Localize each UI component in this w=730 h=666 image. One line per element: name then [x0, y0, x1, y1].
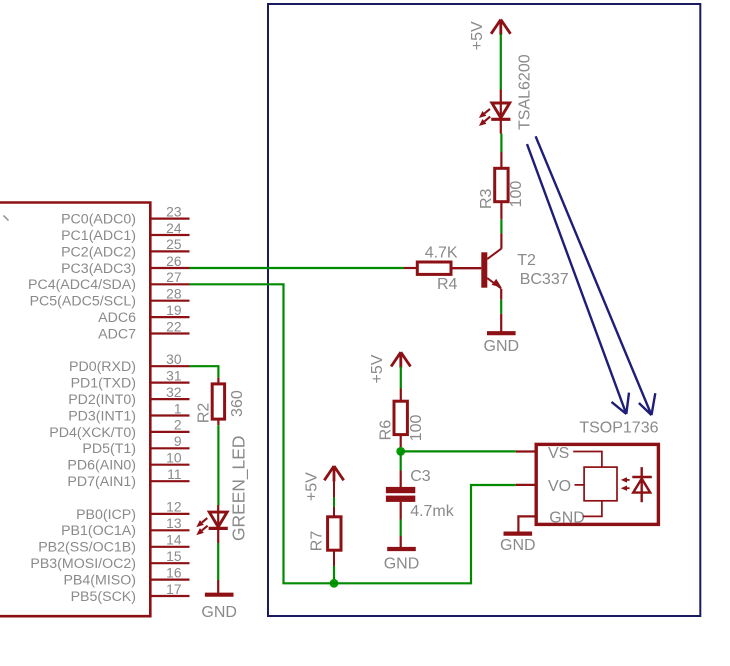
IR beam arrow 1	[527, 144, 629, 414]
pin VO	[516, 484, 536, 486]
svg-text:360: 360	[229, 390, 246, 417]
pin 19 ADC6	[151, 316, 190, 318]
svg-text:16: 16	[166, 565, 182, 580]
svg-text:GREEN_LED: GREEN_LED	[228, 436, 248, 541]
svg-text:R2: R2	[195, 403, 212, 424]
TSOP internal wiring	[573, 452, 602, 517]
pin 15 PB3(MOSI/OC2)	[151, 562, 190, 564]
wire C3 to GND	[400, 502, 402, 520]
pin 9 PD5(T1)	[151, 447, 190, 449]
wire R7 to junction	[333, 550, 335, 566]
wire +5V to LED	[500, 34, 502, 90]
svg-text:GND: GND	[549, 509, 585, 526]
svg-text:PC2(ADC2): PC2(ADC2)	[61, 244, 136, 260]
pin GND	[518, 516, 536, 531]
resistor R4	[417, 262, 451, 274]
svg-text:28: 28	[166, 287, 182, 302]
pin 25 PC2(ADC2)	[151, 250, 190, 252]
resistor R7	[328, 517, 341, 550]
svg-text:4.7mk: 4.7mk	[410, 503, 455, 520]
svg-text:+5V: +5V	[469, 21, 486, 50]
svg-text:TSAL6200: TSAL6200	[517, 54, 534, 130]
svg-text:PC0(ADC0): PC0(ADC0)	[61, 212, 136, 228]
capacitor C3	[386, 487, 415, 493]
svg-text:PD0(RXD): PD0(RXD)	[69, 359, 136, 375]
svg-text:R7: R7	[309, 531, 326, 552]
svg-text:PB1(OC1A): PB1(OC1A)	[61, 523, 136, 539]
svg-text:10: 10	[166, 451, 182, 466]
wire R4 to T2 base	[451, 267, 481, 269]
svg-text:ADC7: ADC7	[98, 326, 136, 342]
ground (transmitter)	[487, 331, 516, 335]
svg-text:R4: R4	[437, 276, 458, 293]
wire LED to R3	[500, 134, 502, 153]
pin 24 PC1(ADC1)	[151, 234, 190, 236]
wire +5V to R7	[333, 481, 335, 498]
svg-text:PD6(AIN0): PD6(AIN0)	[67, 458, 136, 474]
svg-text:4.7K: 4.7K	[425, 245, 458, 262]
wire PC3 pin26 to R4	[190, 267, 405, 269]
svg-text:22: 22	[166, 319, 181, 334]
T2 collector diagonal	[487, 249, 501, 260]
pin 22 ADC7	[151, 332, 190, 334]
svg-text:25: 25	[166, 237, 182, 252]
svg-text:30: 30	[166, 352, 182, 367]
pin 26 PC3(ADC3)	[151, 267, 190, 269]
IR beam arrow 2	[536, 136, 656, 415]
pin 16 PB4(MISO)	[151, 578, 190, 580]
svg-text:17: 17	[166, 582, 181, 597]
resistor R6	[394, 401, 407, 434]
wire PC4 pin27 to TSOP VO (long net)	[190, 284, 516, 583]
stray text fragment tick	[4, 216, 9, 221]
svg-text:100: 100	[508, 181, 525, 208]
svg-text:PD5(T1): PD5(T1)	[82, 441, 136, 457]
wire LED to GND	[217, 543, 219, 580]
IC U1 body (ATmega, partial)	[0, 203, 150, 617]
resistor R2	[212, 384, 224, 419]
svg-text:GND: GND	[201, 604, 237, 621]
wire R3 to T2 collector	[500, 202, 502, 220]
svg-text:1: 1	[174, 401, 182, 416]
svg-text:32: 32	[166, 385, 181, 400]
svg-text:9: 9	[174, 434, 182, 449]
svg-text:+5V: +5V	[369, 354, 386, 383]
svg-text:15: 15	[166, 549, 182, 564]
svg-text:PD4(XCK/T0): PD4(XCK/T0)	[49, 425, 136, 441]
LED D1 TSAL6200	[492, 103, 510, 118]
svg-text:23: 23	[166, 204, 182, 219]
svg-text:GND: GND	[384, 556, 420, 573]
pin 28 PC5(ADC5/SCL)	[151, 300, 190, 302]
pin 31 PD1(TXD)	[151, 382, 190, 384]
svg-text:PC3(ADC3): PC3(ADC3)	[61, 261, 136, 277]
svg-text:14: 14	[166, 533, 182, 548]
svg-text:24: 24	[166, 221, 182, 236]
wire R2 to LED	[217, 419, 219, 425]
wire +5V to R6	[400, 367, 402, 389]
svg-text:PB5(SCK): PB5(SCK)	[71, 589, 136, 605]
svg-text:R3: R3	[478, 188, 495, 209]
svg-text:TSOP1736: TSOP1736	[579, 420, 658, 437]
pin 30 PD0(RXD)	[151, 365, 190, 367]
svg-text:PB0(ICP): PB0(ICP)	[76, 507, 136, 523]
pin 12 PB0(ICP)	[151, 513, 190, 515]
svg-text:PC1(ADC1): PC1(ADC1)	[61, 228, 136, 244]
svg-text:2: 2	[174, 418, 182, 433]
pin 13 PB1(OC1A)	[151, 529, 190, 531]
pin 2 PD4(XCK/T0)	[151, 431, 190, 433]
pin 10 PD6(AIN0)	[151, 464, 190, 466]
svg-text:BC337: BC337	[520, 271, 569, 288]
ground (C3)	[387, 547, 416, 551]
svg-text:PB2(SS/OC1B): PB2(SS/OC1B)	[38, 540, 136, 556]
ground (TSOP)	[504, 531, 533, 535]
svg-text:11: 11	[167, 467, 181, 482]
svg-text:PD3(INT1): PD3(INT1)	[68, 408, 136, 424]
transistor T2 BC337 base bar	[481, 252, 487, 287]
svg-text:VS: VS	[548, 445, 569, 462]
+5V supply (transmitter)	[491, 20, 510, 36]
ground (green LED)	[205, 593, 234, 597]
LED GREEN_LED	[209, 512, 227, 527]
+5V supply (R7)	[324, 466, 343, 482]
TSOP photodiode light arrows	[624, 479, 630, 481]
svg-text:31: 31	[166, 368, 181, 383]
pin 11 PD7(AIN1)	[151, 480, 190, 482]
svg-text:T2: T2	[517, 252, 536, 269]
T2 emitter diagonal with arrow	[487, 278, 501, 288]
svg-text:VO: VO	[548, 478, 571, 495]
svg-text:PD1(TXD): PD1(TXD)	[71, 376, 136, 392]
wire emitter to GND	[500, 289, 502, 300]
pin 27 PC4(ADC4/SDA)	[151, 283, 190, 285]
IC U2 TSOP1736 body	[536, 444, 658, 524]
svg-text:13: 13	[166, 516, 182, 531]
svg-text:GND: GND	[500, 537, 536, 554]
svg-text:PD2(INT0): PD2(INT0)	[68, 392, 136, 408]
junction dot R7/VO net	[330, 579, 339, 588]
svg-text:PC5(ADC5/SCL): PC5(ADC5/SCL)	[30, 294, 136, 310]
pin 23 PC0(ADC0)	[151, 218, 190, 220]
svg-text:PB3(MOSI/OC2): PB3(MOSI/OC2)	[30, 556, 136, 572]
resistor R3	[495, 168, 508, 201]
+5V supply (R6)	[391, 352, 410, 368]
svg-text:100: 100	[408, 414, 425, 441]
TSOP internal block	[584, 467, 617, 501]
svg-text:ADC6: ADC6	[98, 310, 136, 326]
svg-text:R6: R6	[377, 420, 394, 441]
pin 32 PD2(INT0)	[151, 398, 190, 400]
pin 17 PB5(SCK)	[151, 595, 190, 597]
pin 14 PB2(SS/OC1B)	[151, 546, 190, 548]
svg-text:C3: C3	[410, 468, 431, 485]
frame border	[268, 4, 700, 616]
svg-text:26: 26	[166, 254, 182, 269]
svg-text:12: 12	[166, 500, 181, 515]
svg-text:27: 27	[166, 270, 181, 285]
wire junction to C3	[400, 451, 402, 470]
pin VS	[516, 450, 536, 452]
wire PD0 pin30 to R2	[190, 366, 219, 378]
TSOP photodiode	[641, 467, 643, 502]
svg-text:PD7(AIN1): PD7(AIN1)	[67, 474, 136, 490]
svg-text:+5V: +5V	[304, 472, 321, 501]
junction dot VS net	[396, 447, 405, 456]
pin 1 PD3(INT1)	[151, 414, 190, 416]
wire R6 to junction	[400, 435, 402, 448]
svg-text:GND: GND	[484, 338, 520, 355]
wire junction to TSOP VS	[401, 450, 516, 452]
svg-text:PB4(MISO): PB4(MISO)	[63, 573, 136, 589]
svg-text:19: 19	[166, 303, 182, 318]
svg-text:PC4(ADC4/SDA): PC4(ADC4/SDA)	[28, 277, 136, 293]
